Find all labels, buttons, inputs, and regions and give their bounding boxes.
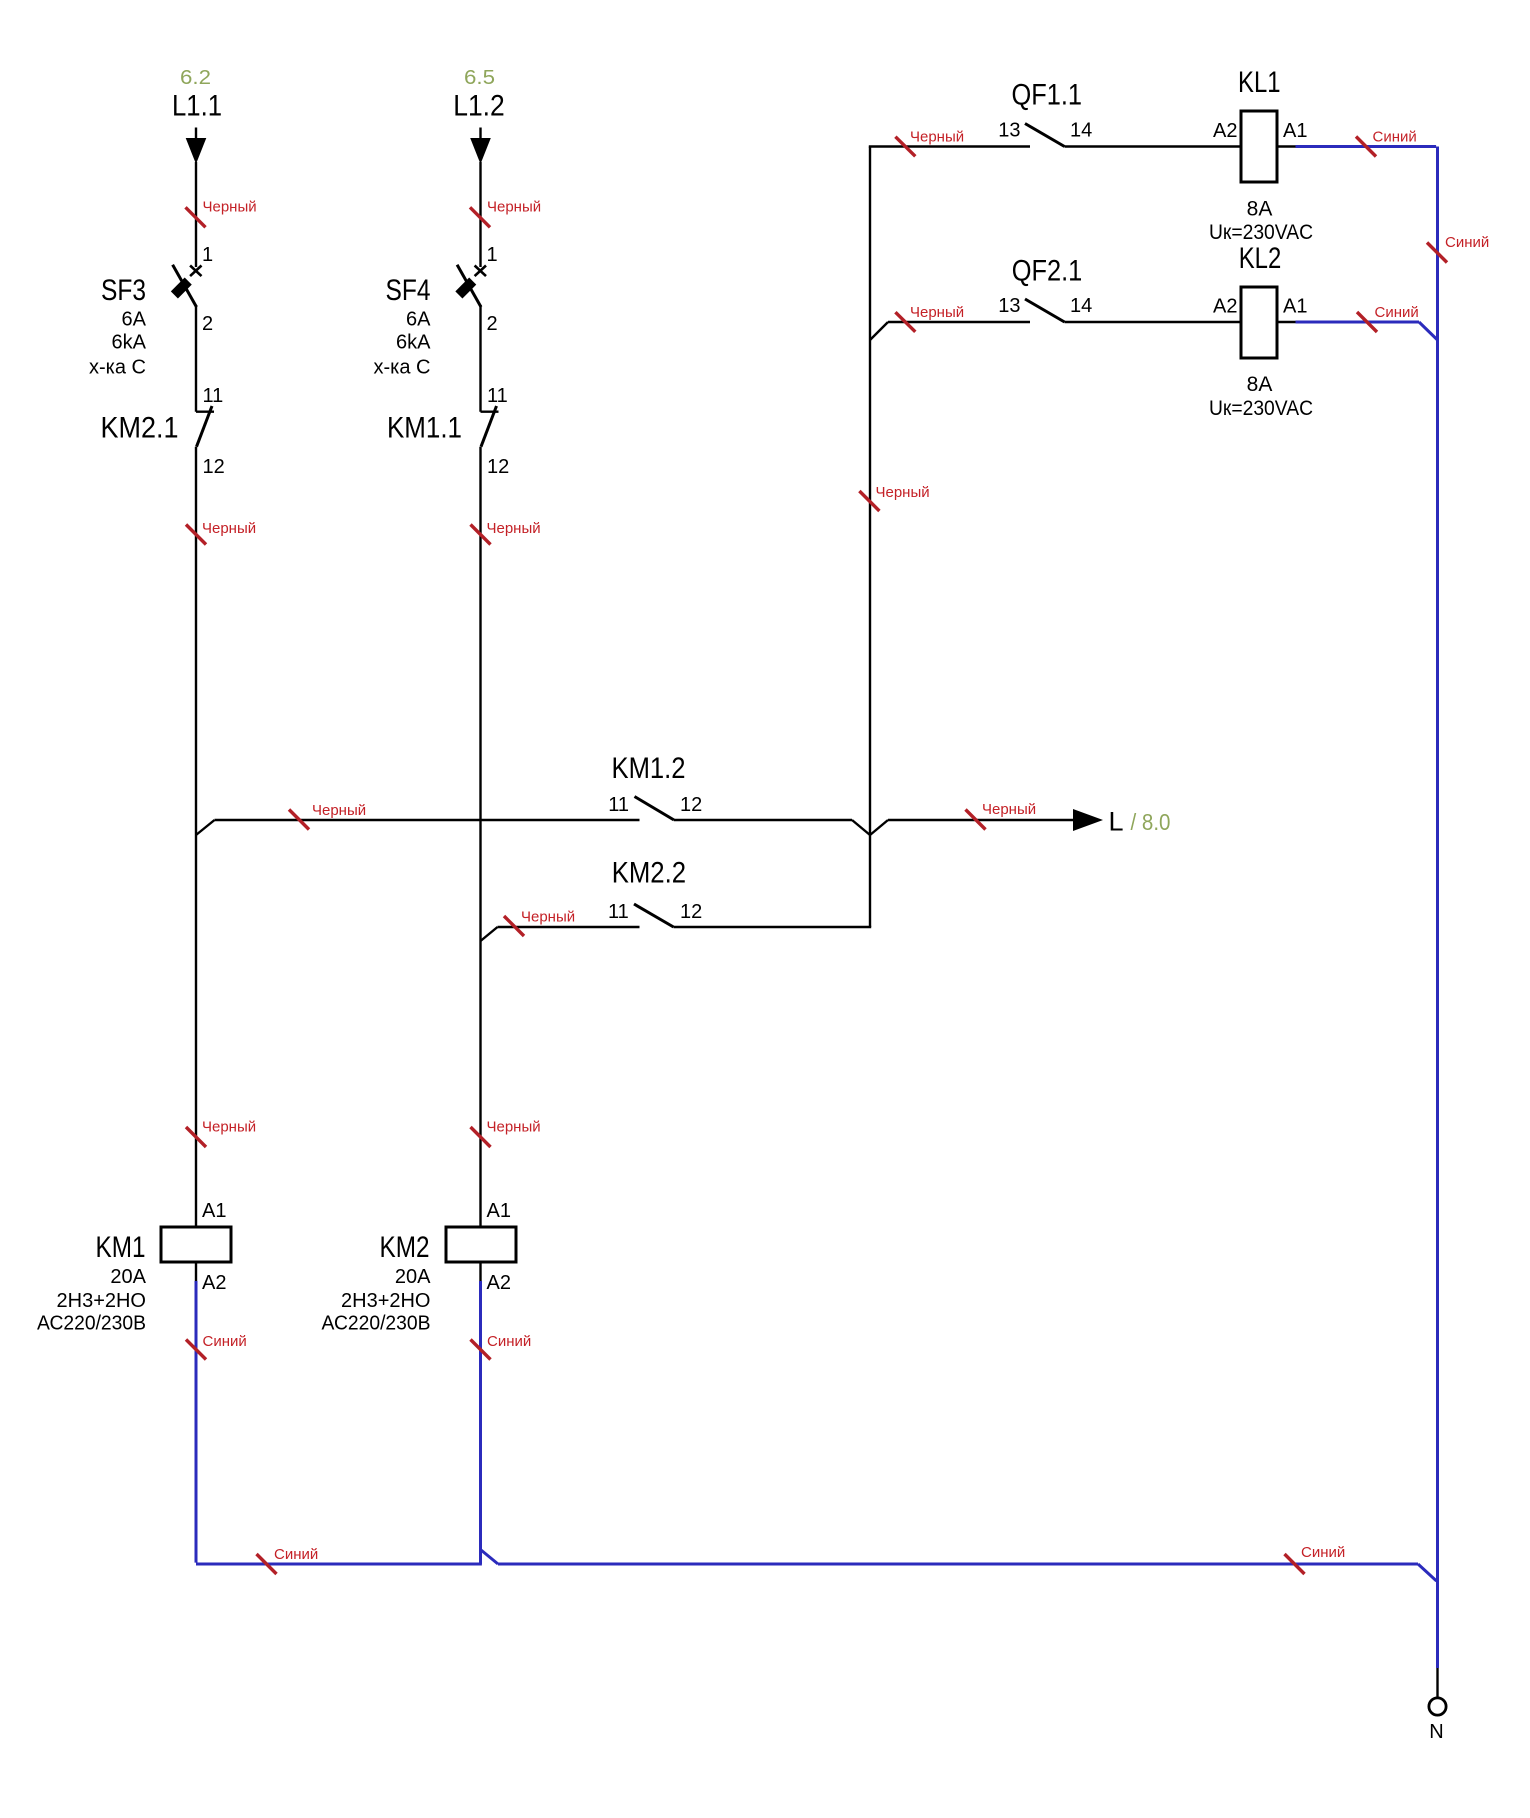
- svg-text:L: L: [1109, 807, 1124, 837]
- wire color slash Синий (KM1 A2): [186, 1333, 247, 1360]
- svg-text:Черный: Черный: [876, 484, 930, 501]
- wire blue N bus left segment: [196, 1563, 482, 1566]
- coil KM1: [161, 1227, 231, 1262]
- node L1.1 incoming arrow: [186, 128, 207, 165]
- wire color slash Черный (below KM1.1): [471, 520, 541, 545]
- svg-text:KM1.1: KM1.1: [387, 412, 462, 445]
- wire color slash Черный (L output): [966, 801, 1037, 830]
- wire SF4 pin2 to KM1.1 pin 11: [479, 305, 481, 412]
- wire blue N bus right segment: [498, 1563, 1418, 1566]
- wire jog KL2 A1 into N riser: [1419, 322, 1438, 340]
- wire KM1.2 row from tap to pin 11: [215, 819, 640, 821]
- svg-text:2Н3+2НО: 2Н3+2НО: [57, 1290, 147, 1312]
- svg-text:N: N: [1429, 1721, 1443, 1743]
- svg-text:14: 14: [1070, 295, 1092, 317]
- svg-text:12: 12: [203, 456, 225, 478]
- svg-text:14: 14: [1070, 120, 1092, 142]
- wire L1.1 to SF3 pin 1: [195, 162, 197, 267]
- svg-text:6A: 6A: [122, 309, 147, 331]
- svg-text:Черный: Черный: [202, 520, 256, 537]
- svg-text:Черный: Черный: [910, 304, 964, 321]
- wire color slash Черный (L1.1): [186, 199, 257, 228]
- wire KM1.2 pin12 to junction: [674, 819, 852, 821]
- wire color slash Черный (above KM1 coil): [186, 1119, 256, 1148]
- wire KM2.1 pin12 down to KM1 coil A1: [195, 447, 197, 1227]
- svg-text:Черный: Черный: [202, 1119, 256, 1136]
- wire color slash Черный (below KM2.1): [186, 520, 256, 545]
- svg-text:1: 1: [487, 244, 498, 266]
- wire color slash Синий (N bus right): [1285, 1544, 1346, 1574]
- wire KM1 A2 blue down to N bus: [195, 1281, 198, 1563]
- svg-text:13: 13: [998, 120, 1020, 142]
- wire color slash Синий (KL1 A1): [1356, 129, 1417, 157]
- svg-text:х-ка С: х-ка С: [89, 357, 146, 379]
- svg-text:Черный: Черный: [910, 129, 964, 146]
- contact KM2.1 (NC): [196, 406, 214, 447]
- wire color slash Черный (L1.2): [470, 199, 541, 228]
- wire L output: [888, 819, 1074, 821]
- svg-text:A2: A2: [1213, 120, 1237, 142]
- svg-text:2: 2: [202, 313, 213, 335]
- wire KM2.2 pin12 to feeder bottom: [674, 926, 872, 928]
- wire jog N bus into N riser: [1418, 1564, 1437, 1581]
- svg-text:A1: A1: [1283, 296, 1307, 318]
- wire jog feeder to QF2.1 row: [870, 322, 888, 340]
- contact KM2.2 (NO blade): [634, 904, 674, 927]
- wire color slash Черный (QF1.1 feed): [895, 129, 964, 157]
- wire color slash Синий (KM2 A2): [471, 1333, 532, 1360]
- svg-text:Черный: Черный: [487, 199, 541, 216]
- svg-text:6kA: 6kA: [112, 332, 147, 354]
- wire color slash Синий (N bus left): [257, 1546, 319, 1574]
- svg-text:1: 1: [202, 244, 213, 266]
- wire jog tap to KM1.2 row: [196, 820, 215, 835]
- svg-text:Синий: Синий: [203, 1333, 247, 1350]
- coil KM2: [446, 1227, 516, 1262]
- svg-text:Черный: Черный: [203, 199, 257, 216]
- wire junction jog feeder to L output: [870, 820, 888, 835]
- breaker SF4: [455, 265, 486, 307]
- svg-text:L1.1: L1.1: [172, 90, 222, 123]
- wire vertical feeder to QF1.1/QF2.1: [869, 147, 871, 928]
- svg-text:11: 11: [203, 385, 224, 407]
- svg-text:KM2: KM2: [380, 1231, 430, 1264]
- svg-text:20A: 20A: [395, 1266, 431, 1288]
- svg-text:KL2: KL2: [1239, 242, 1282, 275]
- svg-text:A2: A2: [202, 1272, 226, 1294]
- svg-text:Черный: Черный: [982, 801, 1036, 818]
- svg-text:2Н3+2НО: 2Н3+2НО: [341, 1290, 431, 1312]
- svg-text:12: 12: [487, 456, 509, 478]
- wire KL1 A1 blue to N riser: [1296, 145, 1437, 148]
- wire black stub to N terminal: [1436, 1668, 1438, 1698]
- wire KL1 A1 stub: [1277, 145, 1296, 147]
- svg-text:QF1.1: QF1.1: [1012, 79, 1083, 112]
- svg-text:SF4: SF4: [386, 274, 431, 307]
- wire feeder to QF1.1 pin 13: [869, 145, 1030, 147]
- wire KM2 A2 stub: [479, 1262, 481, 1281]
- svg-text:Синий: Синий: [1373, 129, 1417, 146]
- wire KM1 A2 stub: [195, 1262, 197, 1281]
- svg-text:Uк=230VAC: Uк=230VAC: [1209, 221, 1313, 244]
- contact KM1.1 (NC): [481, 406, 499, 447]
- wire color slash Черный (above KM2 coil): [471, 1119, 541, 1148]
- svg-text:QF2.1: QF2.1: [1012, 254, 1083, 287]
- svg-text:A1: A1: [1283, 120, 1307, 142]
- svg-text:L1.2: L1.2: [453, 90, 505, 123]
- svg-text:KM2.2: KM2.2: [612, 856, 686, 889]
- svg-text:Черный: Черный: [487, 520, 541, 537]
- wire KM2 A2 blue down to N bus: [479, 1281, 482, 1564]
- svg-text:11: 11: [608, 794, 629, 816]
- contact KM1.2 (NO blade): [635, 797, 675, 821]
- node L outgoing arrow: [1073, 809, 1103, 831]
- contact QF2.1 (NO blade): [1025, 299, 1065, 322]
- svg-text:/ 8.0: / 8.0: [1131, 809, 1171, 835]
- svg-text:Uк=230VAC: Uк=230VAC: [1209, 397, 1313, 420]
- svg-text:Черный: Черный: [487, 1119, 541, 1136]
- wire blue N riser vertical: [1436, 147, 1439, 1669]
- svg-text:Черный: Черный: [312, 802, 366, 819]
- svg-text:SF3: SF3: [101, 274, 146, 307]
- wire KL2 A1 stub: [1277, 321, 1296, 323]
- svg-text:6A: 6A: [406, 309, 431, 331]
- wire KM1.1 pin12 down to KM2 coil A1: [479, 447, 481, 1227]
- svg-text:6kA: 6kA: [396, 332, 431, 354]
- contact QF1.1 (NO blade): [1025, 124, 1065, 147]
- wire color slash Черный (feeder mid): [859, 484, 929, 511]
- wire L1.2 to SF4 pin 1: [479, 162, 481, 267]
- node L1.2 incoming arrow: [470, 128, 491, 165]
- svg-text:KM2.1: KM2.1: [101, 412, 179, 445]
- wire color slash Синий (KL2 A1): [1357, 304, 1419, 332]
- svg-text:13: 13: [998, 295, 1020, 317]
- svg-text:АС220/230В: АС220/230В: [37, 1313, 146, 1335]
- wire color slash Черный (QF2.1 feed): [895, 304, 964, 332]
- wire feeder to QF2.1 pin 13: [888, 321, 1030, 323]
- svg-text:8A: 8A: [1247, 198, 1273, 221]
- wire KL2 A1 blue horizontal: [1296, 321, 1420, 324]
- wire color slash Черный (KM1.2 row): [289, 802, 366, 830]
- wire SF3 pin2 to KM2.1 pin 11: [195, 305, 197, 412]
- svg-text:АС220/230В: АС220/230В: [322, 1313, 431, 1335]
- svg-text:A1: A1: [202, 1200, 226, 1222]
- svg-text:Черный: Черный: [521, 909, 575, 926]
- svg-text:20A: 20A: [110, 1266, 146, 1288]
- svg-text:х-ка С: х-ка С: [374, 357, 431, 379]
- wire QF2.1 pin14 to KL2 A2: [1065, 321, 1242, 323]
- svg-text:A2: A2: [487, 1272, 511, 1294]
- wire QF1.1 pin14 to KL1 A2: [1065, 145, 1242, 147]
- wire jog tap to KM2.2 row: [481, 927, 498, 941]
- svg-text:12: 12: [680, 794, 702, 816]
- svg-text:11: 11: [487, 385, 508, 407]
- svg-text:12: 12: [680, 901, 702, 923]
- svg-text:Синий: Синий: [487, 1333, 531, 1350]
- svg-text:A2: A2: [1213, 296, 1237, 318]
- svg-text:11: 11: [608, 901, 629, 923]
- relay coil KL2: [1241, 287, 1277, 358]
- svg-text:Синий: Синий: [1445, 234, 1489, 251]
- svg-text:Синий: Синий: [1375, 304, 1419, 321]
- svg-text:Синий: Синий: [1301, 1544, 1345, 1561]
- svg-text:Синий: Синий: [274, 1546, 318, 1563]
- svg-text:8A: 8A: [1247, 373, 1273, 396]
- wire KM2.2 row from tap to pin 11: [498, 926, 640, 928]
- svg-text:A1: A1: [487, 1200, 511, 1222]
- wire color slash Синий (N riser): [1427, 234, 1489, 263]
- svg-text:2: 2: [487, 313, 498, 335]
- svg-text:KM1.2: KM1.2: [612, 752, 686, 785]
- svg-text:6.5: 6.5: [464, 67, 495, 89]
- svg-text:KM1: KM1: [96, 1231, 146, 1264]
- relay coil KL1: [1241, 111, 1277, 182]
- svg-text:6.2: 6.2: [180, 67, 211, 89]
- terminal N circle: [1429, 1698, 1446, 1715]
- wire color slash Черный (KM2.2 row): [504, 909, 575, 937]
- wire jog KM2 A2 into N bus: [481, 1550, 498, 1564]
- breaker SF3: [171, 265, 202, 307]
- svg-text:KL1: KL1: [1238, 66, 1281, 99]
- wire junction jog KM1.2 output into feeder: [852, 820, 870, 835]
